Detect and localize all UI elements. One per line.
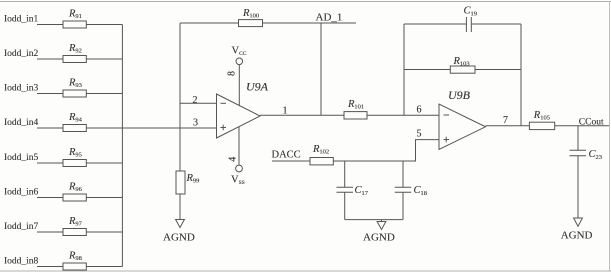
svg-text:Iodd_in7: Iodd_in7 [4,222,39,232]
svg-text:Iodd_in2: Iodd_in2 [4,49,39,59]
svg-text:AGND: AGND [163,232,195,244]
svg-text:Iodd_in4: Iodd_in4 [4,118,39,128]
svg-text:AGND: AGND [363,232,395,244]
svg-text:2: 2 [193,95,198,106]
svg-text:8: 8 [227,71,238,76]
svg-text:3: 3 [193,117,198,128]
svg-text:7: 7 [503,115,508,126]
svg-text:Iodd_in6: Iodd_in6 [4,187,39,197]
svg-text:U9B: U9B [448,88,471,102]
svg-text:4: 4 [227,157,238,162]
svg-text:Iodd_in1: Iodd_in1 [4,14,39,24]
svg-text:U9A: U9A [246,80,269,94]
svg-text:5: 5 [417,129,422,140]
svg-text:DACC: DACC [272,150,301,161]
svg-text:Iodd_in3: Iodd_in3 [4,83,39,93]
svg-text:1: 1 [283,106,288,117]
svg-text:CCout: CCout [579,118,604,128]
svg-text:Iodd_in5: Iodd_in5 [4,153,39,163]
svg-text:AD_1: AD_1 [316,12,343,24]
svg-text:Iodd_in8: Iodd_in8 [4,256,39,266]
svg-text:6: 6 [417,105,422,116]
svg-text:AGND: AGND [561,230,593,242]
